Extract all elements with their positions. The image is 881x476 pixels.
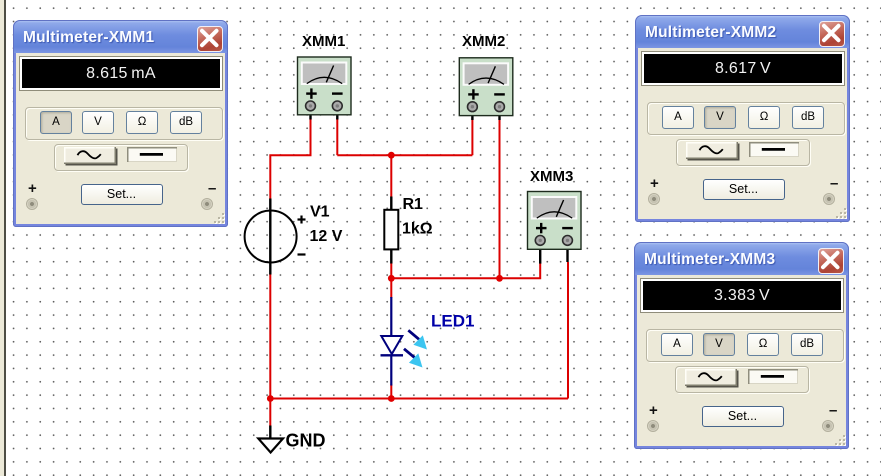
mode group: [647, 102, 845, 135]
AC button: [685, 369, 737, 386]
reading display: [642, 52, 844, 85]
waveform group: [676, 139, 810, 166]
Set button: [702, 406, 784, 427]
wire: junction to XMM3 left port: [391, 263, 540, 278]
wire: XMM3 right port down to rail: [567, 262, 569, 399]
Set button: [81, 184, 163, 205]
mode group: [646, 329, 844, 362]
wire: junction to R1 top: [390, 155, 392, 197]
multimeter icon XMM1: [298, 57, 352, 120]
plus jack: [648, 193, 660, 205]
DC button (selected): [749, 142, 799, 158]
svg-text:LED1: LED1: [431, 312, 474, 331]
resize grip: [212, 211, 224, 223]
plus terminal label: [650, 175, 659, 192]
button A (selected): [40, 111, 72, 134]
svg-text:V1: V1: [310, 204, 330, 221]
wire: bottom ground rail: [270, 398, 568, 400]
resize grip: [834, 206, 846, 218]
button A: [661, 333, 693, 356]
plus jack: [26, 198, 38, 210]
minus terminal label: [829, 402, 837, 419]
resistor R1: [384, 197, 398, 264]
svg-text:12 V: 12 V: [310, 228, 343, 245]
AC button: [64, 147, 116, 164]
close button: [197, 26, 223, 52]
wire: XMM1 right port down: [336, 118, 338, 155]
reading display: [641, 279, 843, 312]
button V (selected): [704, 106, 736, 129]
junction node at XMM2 right / XMM3 left net: [496, 275, 503, 282]
wire: rail to ground symbol: [269, 399, 271, 427]
button ohm: [747, 333, 779, 356]
reading display: [20, 57, 222, 90]
minus jack: [201, 198, 213, 210]
button V: [82, 111, 114, 134]
svg-text:XMM1: XMM1: [302, 33, 345, 50]
minus jack: [823, 193, 835, 205]
waveform group: [54, 144, 188, 171]
ground: [258, 426, 283, 453]
svg-text:XMM3: XMM3: [530, 168, 573, 185]
button dB: [792, 106, 824, 129]
button V (selected): [703, 333, 735, 356]
DC button (selected): [748, 369, 798, 385]
button dB: [170, 111, 202, 134]
multimeter panel XMM3: [634, 242, 849, 449]
junction node at XMM1/XMM2/R1 net: [388, 152, 395, 159]
AC button: [686, 142, 738, 159]
minus terminal label: [208, 180, 216, 197]
mode group: [25, 107, 223, 140]
junction node at R1 bottom net: [388, 275, 395, 282]
svg-text:R1: R1: [403, 196, 424, 213]
button ohm: [748, 106, 780, 129]
button A: [662, 106, 694, 129]
minus terminal label: [830, 175, 838, 192]
wire: XMM1 left port to V1 plus: [270, 118, 310, 199]
wire: horizontal node between XMM1 right and XMM2 left: [337, 154, 472, 156]
plus jack: [647, 420, 659, 432]
button dB: [791, 333, 823, 356]
junction node at V1/ground on rail: [267, 395, 274, 402]
multimeter icon XMM2: [459, 58, 513, 120]
resize grip: [833, 433, 845, 445]
wire: junction to LED1 anode: [390, 278, 392, 298]
waveform group: [675, 366, 809, 393]
plus terminal label: [649, 402, 658, 419]
svg-text:1kΩ: 1kΩ: [402, 221, 433, 238]
multimeter icon XMM3: [528, 192, 582, 264]
junction node at LED1 cathode on rail: [388, 395, 395, 402]
minus jack: [822, 420, 834, 432]
wire: LED1 cathode to bottom rail: [390, 385, 392, 399]
Set button: [703, 179, 785, 200]
wire: V1 minus down to ground rail: [269, 274, 271, 399]
wire: R1 bottom to junction: [390, 263, 392, 278]
plus terminal label: [28, 180, 37, 197]
wire: XMM2 left port down: [471, 118, 473, 155]
DC button (selected): [127, 147, 177, 163]
close button: [819, 21, 845, 47]
svg-text:GND: GND: [286, 431, 326, 451]
voltage source V1: [245, 199, 306, 275]
multimeter panel XMM1: [13, 20, 228, 227]
LED LED1: [381, 297, 428, 386]
close button: [818, 248, 844, 274]
wire: XMM2 right port down to junction: [499, 118, 501, 278]
multimeter panel XMM2: [635, 15, 850, 222]
svg-text:XMM2: XMM2: [462, 33, 505, 50]
button ohm: [126, 111, 158, 134]
